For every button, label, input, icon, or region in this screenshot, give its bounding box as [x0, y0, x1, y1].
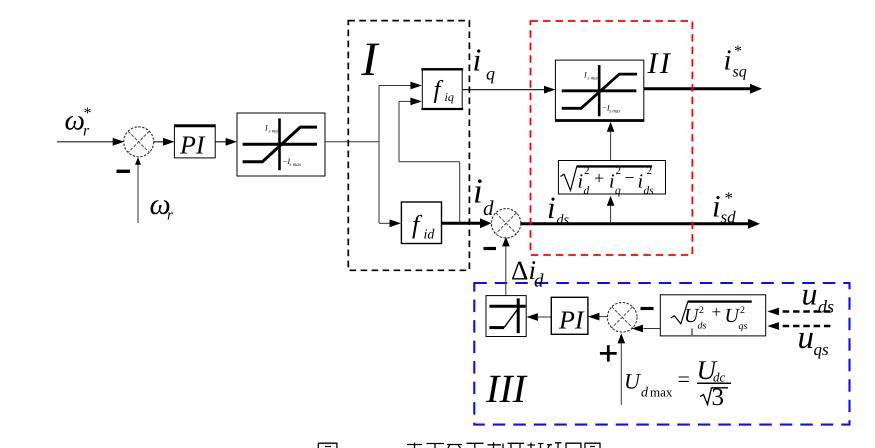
svg-text:q: q — [486, 64, 495, 84]
label delta i_d — [511, 255, 544, 291]
svg-text:PI: PI — [179, 131, 206, 160]
svg-text:3: 3 — [712, 384, 725, 411]
block: voltage PI regulator — [551, 297, 588, 334]
svg-text:i: i — [578, 170, 584, 192]
wire: u_ds dashed input arrow — [767, 308, 830, 316]
wire: omega_r feedback into junction — [135, 157, 141, 223]
block: sqrt(U_ds^2 + U_qs^2) — [660, 295, 765, 336]
svg-text:−: − — [625, 168, 635, 188]
svg-text:2: 2 — [647, 165, 653, 177]
wire: PI to saturation limiter 1 — [215, 138, 237, 146]
label plus at voltage junction — [600, 345, 617, 361]
svg-text:*: * — [725, 189, 734, 208]
wire: limiter 1 output to branch point — [325, 141, 380, 143]
svg-text:ds: ds — [698, 320, 707, 331]
wire: sqrt3 to voltage junction (leftward) — [632, 325, 660, 333]
svg-text:2: 2 — [699, 305, 704, 316]
svg-text:III: III — [485, 366, 528, 411]
svg-text:U: U — [624, 369, 642, 394]
dashed box III (blue, voltage regulation region) — [474, 283, 849, 425]
svg-text:sq: sq — [733, 64, 747, 81]
svg-text:r: r — [167, 208, 173, 224]
svg-text:i: i — [724, 44, 732, 76]
svg-text:i: i — [473, 41, 482, 77]
node: i_d summing junction — [491, 209, 520, 238]
svg-text:+: + — [594, 168, 604, 188]
svg-text:dc: dc — [713, 370, 726, 385]
block: speed PI regulator — [174, 125, 216, 160]
block: output limiter of field weakening loop — [486, 296, 526, 337]
node: speed summing junction — [124, 127, 154, 157]
svg-text:+: + — [712, 303, 722, 322]
svg-text:i: i — [547, 190, 556, 225]
svg-text:ds: ds — [818, 297, 834, 317]
svg-text:II: II — [647, 47, 673, 80]
label minus at i_d junction — [484, 247, 497, 250]
label i_q — [473, 41, 496, 83]
svg-text:s max: s max — [269, 130, 281, 135]
svg-text:u: u — [802, 275, 818, 311]
block: current saturation limiter 1 — [237, 113, 325, 176]
block: sqrt(i_d^2+i_q^2-i_ds^2) — [558, 161, 665, 198]
svg-text:s max: s max — [290, 163, 302, 168]
label u_qs — [798, 320, 830, 359]
wire: branch to f_id input — [379, 219, 401, 227]
wire: i_sq* thick output line — [644, 84, 762, 94]
dashed box I (MTPA region) — [348, 21, 469, 271]
label i_ds — [547, 190, 570, 228]
svg-text:d: d — [483, 196, 494, 220]
svg-text:*: * — [84, 105, 92, 122]
wire: branch to f_iq input 1 — [379, 82, 422, 90]
svg-text:i: i — [473, 172, 483, 211]
wire: delta i_d from limiter 3 up to i_d junction — [502, 237, 510, 296]
wire: i_d feedback to f_iq input 2 — [399, 98, 460, 223]
svg-text:i: i — [638, 170, 644, 192]
svg-text:2: 2 — [740, 305, 745, 316]
svg-text:ω: ω — [65, 104, 85, 136]
block: current saturation limiter 2 — [555, 60, 644, 121]
svg-text:max: max — [650, 385, 673, 400]
label u_ds — [802, 275, 835, 316]
svg-text:s max: s max — [588, 77, 600, 82]
svg-text:PI: PI — [558, 306, 585, 335]
svg-text:ds: ds — [644, 185, 655, 197]
svg-text:q: q — [615, 185, 621, 197]
svg-text:qs: qs — [814, 340, 830, 359]
wire: i_ds thick output line to i_sd* — [521, 219, 760, 229]
svg-text:=: = — [678, 367, 690, 392]
svg-text:iq: iq — [445, 90, 454, 104]
node: voltage summing junction — [607, 303, 637, 333]
wire: sqrt block up into limiter 2 — [607, 122, 615, 161]
svg-text:r: r — [83, 123, 90, 140]
svg-text:I: I — [264, 124, 268, 133]
wire: junction to PI — [154, 138, 175, 146]
label omega_r* (speed reference) — [65, 104, 92, 139]
svg-text:d: d — [534, 271, 544, 292]
label i_d — [473, 172, 494, 220]
wire: branch from i_ds line up into sqrt block — [607, 196, 615, 222]
svg-text:i: i — [712, 188, 721, 223]
block: f_id function — [401, 202, 441, 244]
svg-text:id: id — [424, 227, 436, 242]
label minus at speed junction — [117, 170, 131, 173]
svg-text:i: i — [609, 170, 615, 192]
label i_sq* output — [724, 43, 747, 81]
label omega_r (speed feedback) — [150, 188, 174, 224]
svg-text:s max: s max — [609, 110, 621, 115]
svg-text:Δ: Δ — [511, 255, 528, 285]
svg-text:*: * — [734, 43, 742, 60]
caption (partially visible Chinese figure caption tops) — [318, 442, 601, 448]
svg-text:sd: sd — [721, 208, 737, 227]
wire: U_dmax up into voltage junction — [618, 333, 626, 405]
svg-text:d: d — [584, 185, 590, 197]
svg-text:d: d — [641, 386, 649, 401]
wire: branch vertical line — [378, 86, 380, 224]
block: f_iq function — [421, 69, 463, 110]
label U_dmax = U_dc / sqrt(3) — [624, 355, 731, 411]
wire: i_q line from f_iq to limiter 2 — [462, 86, 555, 94]
wire: i_d thick line from f_id to summing junction — [442, 218, 492, 228]
wire: speed reference input arrow — [57, 138, 124, 146]
wire: voltage junction to PI3 (leftward) — [588, 313, 608, 321]
svg-text:I: I — [583, 71, 587, 80]
dashed box II (red, current limit region) — [531, 21, 693, 255]
svg-text:I: I — [361, 33, 380, 86]
svg-text:qs: qs — [739, 321, 748, 332]
svg-text:2: 2 — [616, 165, 622, 177]
svg-text:ds: ds — [557, 213, 570, 228]
wire: PI3 to limiter 3 (leftward) — [526, 313, 551, 321]
svg-text:u: u — [798, 320, 815, 356]
wire: u_qs dashed input arrow — [767, 322, 830, 330]
svg-text:2: 2 — [584, 165, 590, 177]
label i_sd* output — [712, 188, 736, 226]
label minus at voltage junction — [641, 307, 654, 310]
